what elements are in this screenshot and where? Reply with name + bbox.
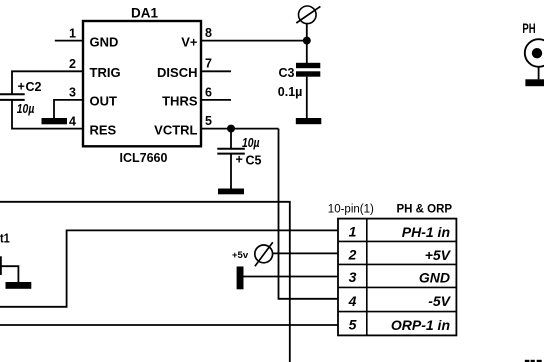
wire pin2 TRIG to C2 xyxy=(12,71,83,94)
svg-text:VCTRL: VCTRL xyxy=(154,122,197,137)
svg-text:10-pin(1): 10-pin(1) xyxy=(328,204,374,216)
power connector symbol (circle-slash) above C3 xyxy=(299,6,317,24)
wire down right side from pin5 to row4 xyxy=(279,129,339,299)
svg-text:7: 7 xyxy=(205,57,212,71)
svg-text:PH & ORP: PH & ORP xyxy=(397,204,453,216)
capacitor C5 plates xyxy=(217,148,245,150)
svg-text:PH-1 in: PH-1 in xyxy=(402,224,450,240)
ground bar (vertical) for row3 xyxy=(237,267,244,290)
svg-text:C3: C3 xyxy=(279,66,295,80)
junction node at V+/C3 xyxy=(303,37,311,45)
svg-text:5: 5 xyxy=(205,114,212,128)
wire row5 ORP-1 from left edge xyxy=(0,324,338,326)
wire connector to junction to C3 xyxy=(306,24,308,63)
svg-text:3: 3 xyxy=(69,86,76,100)
svg-text:THRS: THRS xyxy=(162,94,198,109)
svg-text:t1: t1 xyxy=(0,231,10,246)
svg-text:GND: GND xyxy=(90,34,119,49)
svg-text:4: 4 xyxy=(69,114,76,128)
svg-text:0.1µ: 0.1µ xyxy=(278,85,303,99)
wire C2 bottom to RES pin4 xyxy=(12,100,83,129)
svg-text:GND: GND xyxy=(419,270,450,286)
svg-text:+5v: +5v xyxy=(232,250,249,261)
svg-text:DISCH: DISCH xyxy=(157,65,197,80)
wire pin3 OUT to ground xyxy=(54,100,83,118)
capacitor C3 plates xyxy=(296,63,320,68)
svg-text:RES: RES xyxy=(90,122,117,137)
svg-text:5: 5 xyxy=(349,316,357,332)
svg-text:8: 8 xyxy=(205,26,212,40)
wire pin1 stub xyxy=(55,40,83,42)
wire C3 to ground xyxy=(306,77,308,118)
op-amp U1 : IC DA1 ICL7660 body xyxy=(83,21,201,146)
svg-text:4: 4 xyxy=(348,293,357,309)
svg-text:V+: V+ xyxy=(181,34,198,49)
svg-text:+5V: +5V xyxy=(425,247,452,263)
ground bar below C5 xyxy=(218,189,244,195)
svg-text:-5V: -5V xyxy=(428,293,451,309)
svg-text:TRIG: TRIG xyxy=(90,65,121,80)
svg-text:C2: C2 xyxy=(26,80,42,94)
svg-text:C5: C5 xyxy=(246,154,262,168)
ground bar at PH connector xyxy=(525,79,544,86)
junction node at C5 xyxy=(227,125,235,133)
cut-off marks bottom right xyxy=(525,360,530,362)
wire C5 to ground xyxy=(230,154,232,189)
wire row1 PH-1 loop to t1 xyxy=(0,230,338,306)
wire pin6 stub xyxy=(201,99,231,101)
wire pin7 stub xyxy=(201,70,231,72)
svg-text:+: + xyxy=(236,153,243,167)
svg-text:2: 2 xyxy=(348,246,357,262)
svg-text:1: 1 xyxy=(69,26,76,40)
svg-text:ICL7660: ICL7660 xyxy=(120,151,168,165)
svg-text:+: + xyxy=(18,80,25,94)
wire row3 GND xyxy=(244,276,339,278)
capacitor C2 plates xyxy=(0,93,25,95)
ground bar below C3 xyxy=(296,118,322,124)
svg-text:3: 3 xyxy=(349,269,357,285)
svg-text:1: 1 xyxy=(349,224,357,240)
svg-text:PH: PH xyxy=(522,20,535,36)
svg-text:6: 6 xyxy=(205,85,212,99)
svg-text:OUT: OUT xyxy=(90,94,118,109)
svg-text:10µ: 10µ xyxy=(242,135,260,150)
ground bar at OUT xyxy=(42,118,68,124)
wire row2 +5V xyxy=(273,252,339,254)
wire pin8 V+ to C3 column xyxy=(201,40,307,42)
wire long net from left edge to right vertical xyxy=(0,202,290,362)
svg-text:ORP-1 in: ORP-1 in xyxy=(391,317,450,333)
wire pin5 VCTRL to right xyxy=(201,128,279,130)
svg-text:DA1: DA1 xyxy=(131,6,158,21)
ground bar at t1 xyxy=(6,282,32,289)
wire junction to C5 xyxy=(230,129,232,149)
svg-text:10µ: 10µ xyxy=(17,101,35,116)
svg-text:2: 2 xyxy=(69,57,76,71)
